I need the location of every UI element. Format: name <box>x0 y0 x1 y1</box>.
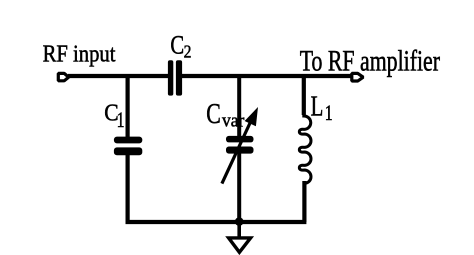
svg-text:L: L <box>311 92 324 123</box>
svg-text:C: C <box>170 31 184 60</box>
svg-text:2: 2 <box>184 41 192 61</box>
svg-text:var: var <box>222 110 244 131</box>
svg-text:RF input: RF input <box>43 40 117 67</box>
svg-text:1: 1 <box>325 102 333 126</box>
svg-text:C: C <box>206 99 221 129</box>
svg-text:To RF amplifier: To RF amplifier <box>300 45 441 78</box>
svg-text:1: 1 <box>117 109 125 133</box>
